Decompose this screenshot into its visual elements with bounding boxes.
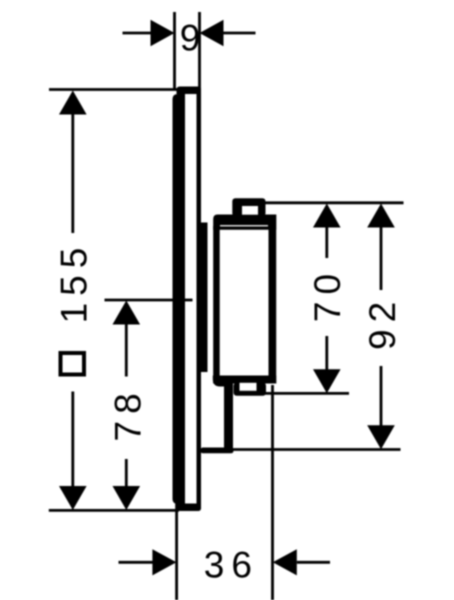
dim 78 top extension line (plate centre tick)	[105, 299, 193, 302]
wall plate top cap	[177, 87, 201, 95]
handle body left edge	[213, 226, 220, 384]
svg-text:78: 78	[107, 386, 148, 441]
dim 92 bottom arrowhead	[367, 425, 395, 449]
dim 70 top arrowhead	[313, 204, 341, 228]
escutcheon sleeve bottom foot	[201, 448, 234, 454]
dim 78 lower stem	[125, 459, 128, 487]
top button outer	[232, 198, 265, 216]
handle body seam line	[220, 225, 268, 226]
dim 70/92 top extension line	[264, 201, 404, 204]
dim 155 top extension line	[49, 88, 177, 91]
dim 92 top arrowhead	[367, 204, 395, 228]
dim 36 right arrowhead	[273, 549, 297, 575]
dim 9 text	[180, 18, 201, 59]
dim 9 left leader line	[123, 32, 152, 35]
dim 70 text	[307, 267, 348, 322]
wall plate right outline	[197, 88, 202, 509]
dim 9 right arrowhead	[200, 20, 224, 46]
wall plate bottom cap	[177, 504, 202, 512]
dim 36 left extension line	[175, 503, 178, 600]
dim 70 bottom extension line	[262, 392, 349, 395]
dim 92 upper stem	[380, 226, 383, 290]
dim 155 upper stem	[71, 113, 74, 233]
dim 36 left leader line	[119, 561, 154, 564]
dim 9 left arrowhead	[151, 20, 175, 46]
dim 9 left extension line	[173, 12, 176, 90]
cartridge stem bar	[224, 384, 233, 450]
svg-text:9: 9	[180, 18, 201, 59]
square symbol	[61, 353, 85, 375]
dim 155 text	[53, 241, 94, 324]
escutcheon sleeve bar	[201, 223, 208, 373]
dim 9 right extension line	[198, 12, 201, 88]
dim 78 text	[107, 386, 148, 441]
svg-text:70: 70	[307, 267, 348, 322]
svg-text:36: 36	[204, 545, 259, 586]
dim 155 top arrowhead	[59, 91, 87, 115]
handle body bottom cap	[213, 376, 276, 387]
dim 92 text	[362, 295, 403, 350]
bottom button outer	[234, 383, 267, 396]
wall plate body (thick left face)	[173, 94, 186, 504]
dim 36 left arrowhead	[152, 549, 176, 575]
dim 36 text	[204, 545, 259, 586]
dim 70 lower stem	[325, 336, 328, 370]
handle body top cap	[213, 215, 276, 230]
dim 155 bottom arrowhead	[59, 486, 87, 510]
dim 78 top arrowhead	[113, 301, 141, 325]
dim 92 bottom extension line	[232, 448, 401, 451]
handle body right edge	[269, 215, 277, 384]
dim 36 right leader line	[297, 561, 330, 564]
dim 78 upper stem	[125, 323, 128, 377]
dim 78 bottom arrowhead	[113, 486, 141, 510]
dim 70 bottom arrowhead	[313, 369, 341, 393]
dim 70 upper stem	[325, 226, 328, 258]
svg-text:92: 92	[362, 295, 403, 350]
bottom button window	[240, 383, 257, 391]
dim 36 right extension line	[271, 385, 274, 600]
svg-text:155: 155	[53, 241, 94, 324]
dim 9 right leader line	[224, 32, 256, 35]
dim 155 lower stem	[71, 392, 74, 488]
top button window	[242, 206, 258, 215]
dim 155 bottom extension line	[49, 509, 179, 512]
dim 92 lower stem	[380, 366, 383, 426]
